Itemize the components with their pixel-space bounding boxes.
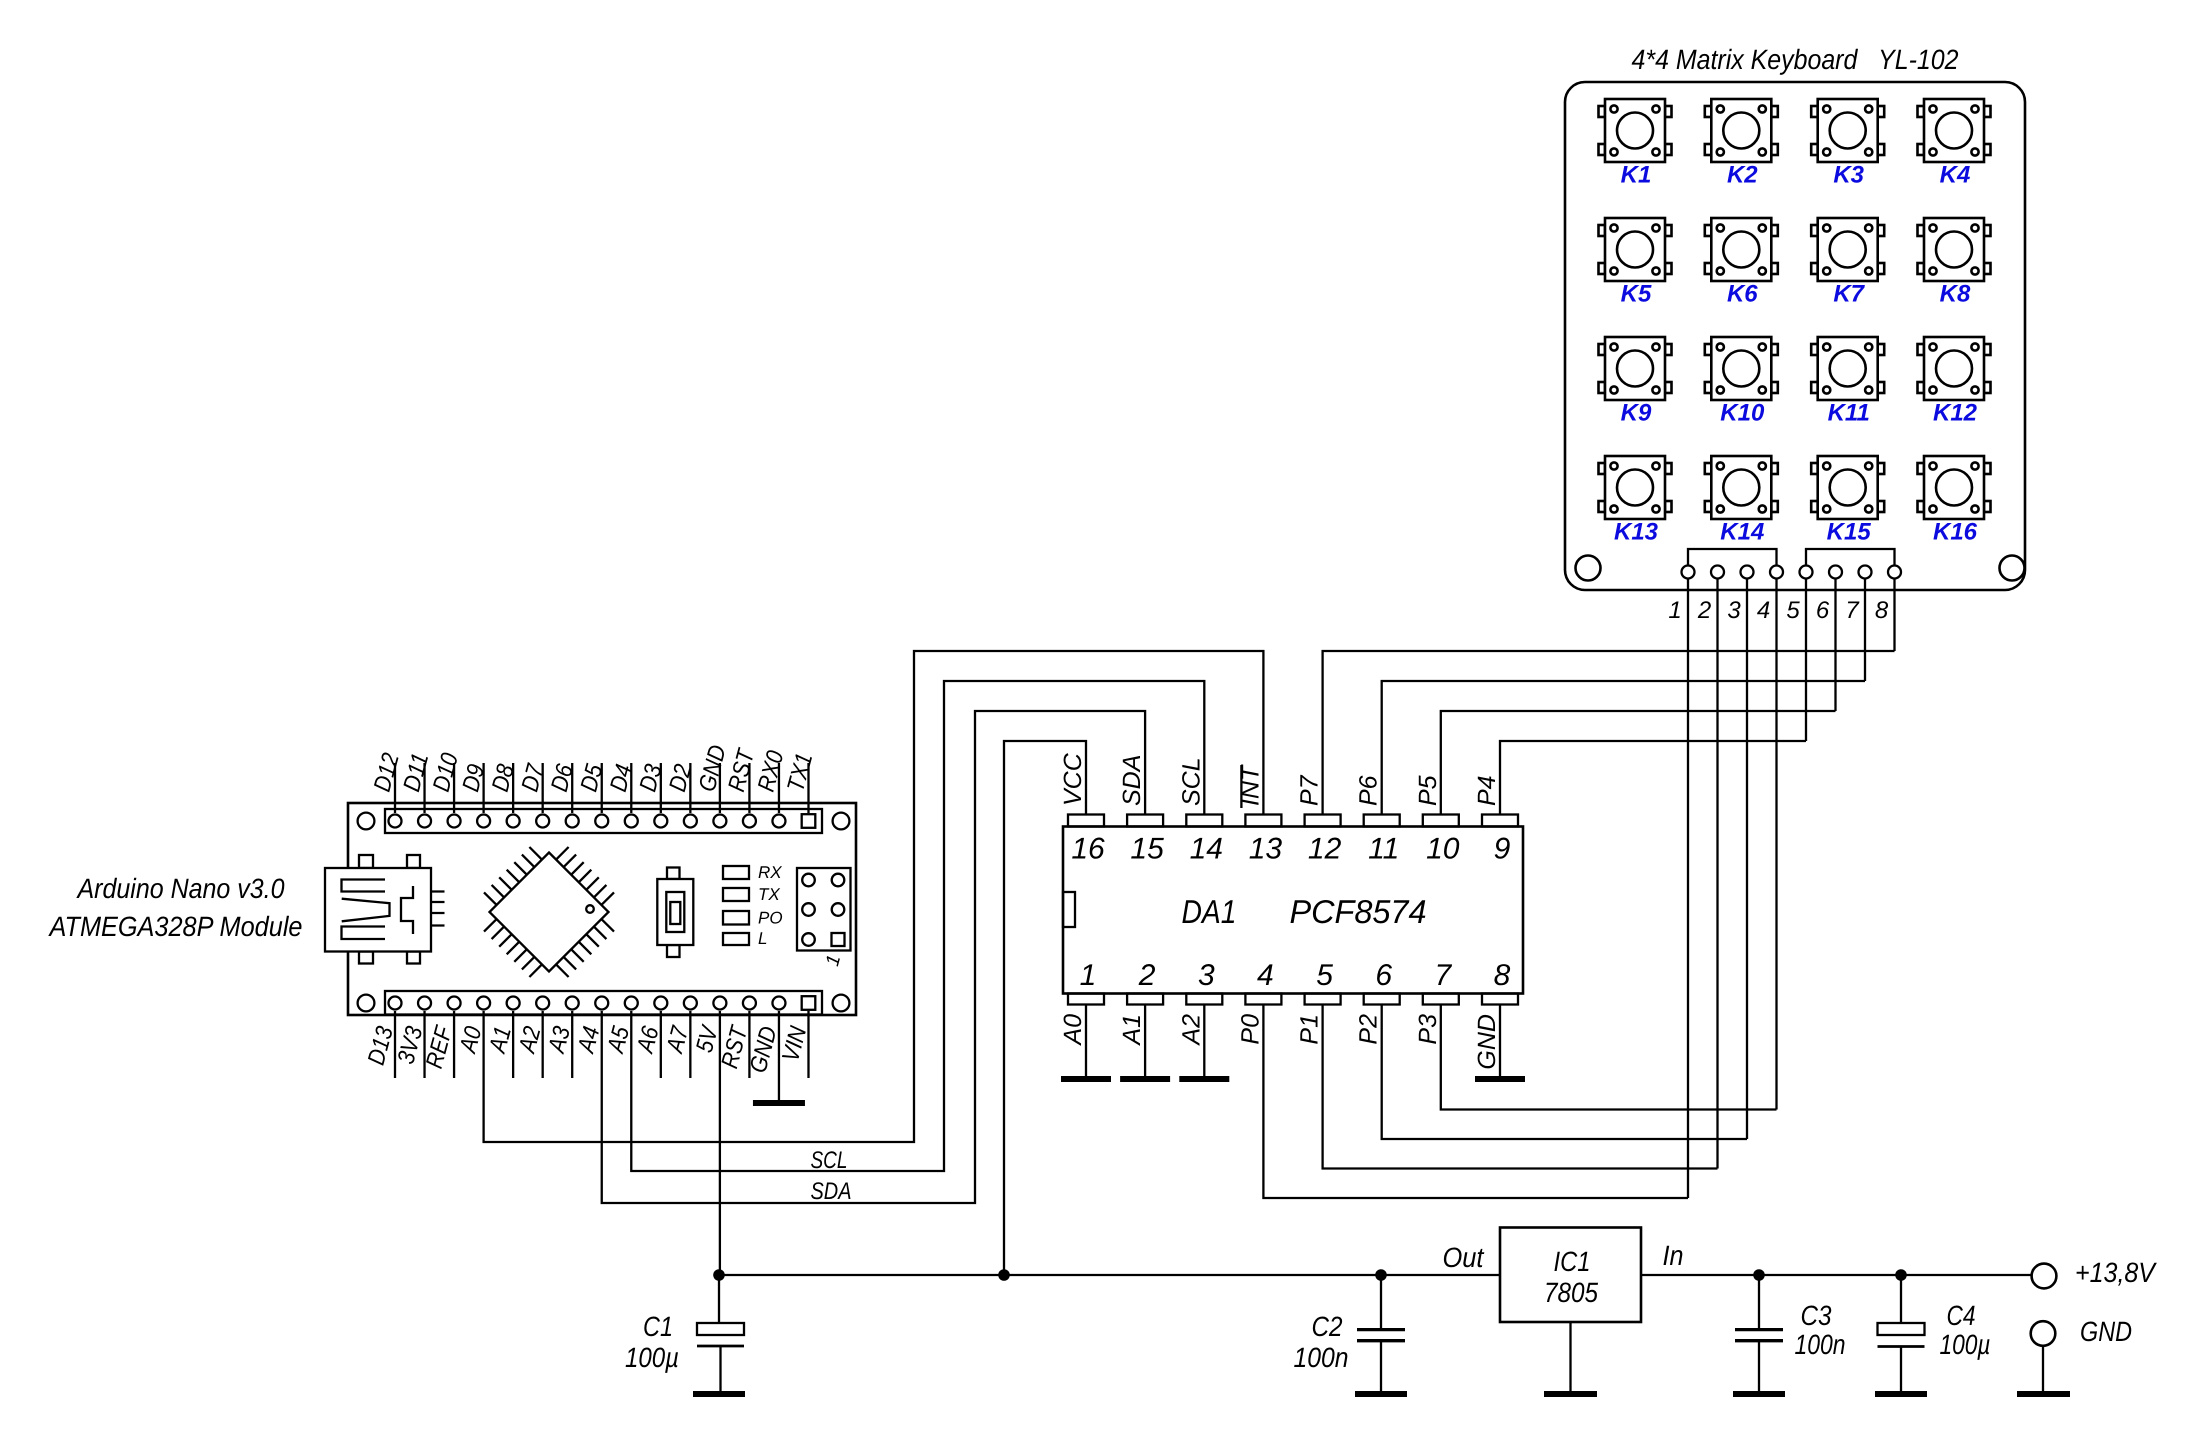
pushbutton K4 [1918, 99, 1991, 162]
voltage regulator IC1 7805 [1500, 1228, 1641, 1323]
svg-text:SCL: SCL [1177, 757, 1205, 806]
Arduino bottom pin VIN pad [802, 996, 816, 1010]
DA1 bottom pin 5 (P1) [1305, 994, 1341, 1005]
wire stub pin D10 [453, 763, 455, 813]
svg-text:1: 1 [1080, 959, 1097, 992]
Arduino bottom pin D13 pad [389, 997, 402, 1010]
Arduino top pin TX1 pad [802, 814, 816, 828]
svg-text:K4: K4 [1940, 162, 1971, 189]
svg-text:7805: 7805 [1544, 1277, 1598, 1308]
Arduino top pin D6 pad [566, 815, 579, 828]
wire stub pin RST [748, 1011, 750, 1078]
wire stub pin D4 [630, 763, 632, 813]
wire net P0 (DA1 pin 4 to keyboard pin 1) [1263, 1004, 1688, 1198]
svg-text:C3: C3 [1801, 1300, 1832, 1331]
svg-text:SCL: SCL [811, 1147, 848, 1174]
pushbutton K11 [1811, 337, 1884, 400]
Arduino bottom pin A1 pad [507, 997, 520, 1010]
pushbutton K6 [1705, 218, 1778, 281]
keyboard module YL-102 board outline [1565, 82, 2025, 590]
svg-text:P5: P5 [1414, 775, 1442, 806]
keyboard connector pin 3 pad [1741, 566, 1754, 579]
Arduino bottom header strip [385, 991, 822, 1015]
wire junction [1753, 1269, 1765, 1281]
svg-text:K1: K1 [1621, 162, 1652, 189]
capacitor C2 100n [1380, 1275, 1382, 1328]
wire Arduino GND pin to ground [778, 1011, 780, 1100]
pushbutton K15 [1811, 456, 1884, 519]
svg-text:P3: P3 [1414, 1014, 1442, 1045]
Arduino mounting hole [833, 813, 850, 830]
wire stub pin A7 [689, 1011, 691, 1078]
pushbutton K12 [1918, 337, 1991, 400]
Arduino top pin D12 pad [389, 815, 402, 828]
pushbutton K3 [1811, 99, 1884, 162]
svg-text:DA1: DA1 [1182, 893, 1237, 930]
wire A2 to ground [1203, 1004, 1205, 1076]
Arduino bottom pin A3 pad [566, 997, 579, 1010]
wire stub pin RST [748, 763, 750, 813]
keyboard connector bracket rows 1-4 [1688, 549, 1777, 565]
pushbutton K13 [1599, 456, 1672, 519]
wire stub pin RX0 [778, 763, 780, 813]
svg-text:K7: K7 [1833, 281, 1865, 308]
Arduino top pin D4 pad [625, 815, 638, 828]
svg-text:16: 16 [1071, 833, 1105, 866]
svg-text:SDA: SDA [811, 1178, 852, 1205]
DA1 bottom pin 4 (P0) [1245, 994, 1281, 1005]
wire from keyboard pin 4 [1775, 579, 1777, 1110]
wire stub pin 3V3 [423, 1011, 425, 1078]
DA1 top pin 13 (INT) [1245, 815, 1281, 827]
svg-text:10: 10 [1426, 833, 1460, 866]
svg-text:K6: K6 [1727, 281, 1758, 308]
DA1 bottom pin 8 (GND) [1482, 994, 1518, 1005]
reset button SW [657, 868, 693, 958]
wire net SCL (Arduino A5 to DA1 pin 14) [631, 681, 1204, 1171]
svg-text:GND: GND [1473, 1014, 1501, 1070]
terminal GND [2031, 1321, 2056, 1346]
pushbutton K5 [1599, 218, 1672, 281]
svg-text:P1: P1 [1296, 1014, 1324, 1045]
svg-text:P6: P6 [1355, 775, 1383, 806]
keyboard connector pin 6 pad [1829, 566, 1842, 579]
keyboard connector pin 7 pad [1859, 566, 1872, 579]
wire junction [998, 1269, 1010, 1281]
Arduino top pin D2 pad [684, 815, 697, 828]
svg-text:VCC: VCC [1059, 752, 1087, 806]
wire from keyboard pin 2 [1716, 579, 1718, 1169]
svg-text:P2: P2 [1355, 1014, 1383, 1045]
svg-text:K13: K13 [1614, 519, 1659, 546]
svg-text:100n: 100n [1294, 1342, 1349, 1373]
svg-text:K8: K8 [1940, 281, 1971, 308]
svg-text:8: 8 [1875, 597, 1889, 624]
pushbutton K7 [1811, 218, 1884, 281]
wire stub pin D13 [394, 1011, 396, 1078]
svg-text:SDA: SDA [1118, 755, 1146, 806]
svg-text:+13,8V: +13,8V [2075, 1257, 2157, 1288]
Arduino top pin RST pad [743, 815, 756, 828]
pushbutton K16 [1918, 456, 1991, 519]
svg-text:K11: K11 [1828, 400, 1870, 427]
LED RX [723, 866, 749, 879]
svg-text:ATMEGA328P Module: ATMEGA328P Module [48, 911, 303, 942]
LED PO [723, 911, 749, 925]
pushbutton K2 [1705, 99, 1778, 162]
svg-text:PCF8574: PCF8574 [1290, 893, 1427, 930]
DA1 top pin 10 (P5) [1423, 815, 1459, 827]
svg-text:P7: P7 [1296, 774, 1324, 806]
svg-text:15: 15 [1130, 833, 1164, 866]
wire stub pin A3 [571, 1011, 573, 1078]
ground symbol A2 [1179, 1076, 1229, 1082]
svg-text:4: 4 [1757, 597, 1770, 624]
LED TX [723, 888, 749, 901]
DA1 top pin 14 (SCL) [1186, 815, 1222, 827]
wire Arduino 5V pin to +5V rail [719, 1011, 721, 1275]
svg-text:P4: P4 [1473, 775, 1501, 806]
wire from keyboard pin 8 [1893, 579, 1895, 652]
pushbutton K9 [1599, 337, 1672, 400]
svg-text:1: 1 [1668, 597, 1681, 624]
Arduino Nano module board outline [348, 803, 856, 1015]
Arduino bottom pin GND pad [772, 997, 785, 1010]
svg-text:K16: K16 [1933, 519, 1978, 546]
svg-text:C1: C1 [643, 1311, 673, 1342]
Arduino bottom pin 5V pad [713, 997, 726, 1010]
Arduino mounting hole [358, 813, 375, 830]
wire stub pin TX1 [807, 763, 809, 813]
svg-text:K5: K5 [1621, 281, 1652, 308]
wire stub pin GND [719, 763, 721, 813]
svg-text:P0: P0 [1236, 1014, 1264, 1045]
svg-text:13: 13 [1249, 833, 1283, 866]
wire stub pin REF [453, 1011, 455, 1078]
wire stub pin D6 [571, 763, 573, 813]
svg-text:Out: Out [1443, 1242, 1485, 1273]
ground symbol Arduino GND [753, 1100, 805, 1106]
DA1 bottom pin 3 (A2) [1186, 994, 1222, 1005]
USB connector body [325, 855, 445, 964]
Arduino bottom pin A7 pad [684, 997, 697, 1010]
wire stub pin D11 [423, 763, 425, 813]
DA1 top pin 12 (P7) [1305, 815, 1341, 827]
Arduino top pin GND pad [713, 815, 726, 828]
Arduino top pin D9 pad [477, 815, 490, 828]
wire net P2 (DA1 pin 6 to keyboard pin 3) [1382, 1004, 1747, 1139]
DA1 bottom pin 1 (A0) [1068, 994, 1104, 1005]
svg-text:14: 14 [1190, 833, 1223, 866]
wire stub pin D12 [394, 763, 396, 813]
wire stub pin VIN [807, 1011, 809, 1078]
keyboard connector pin 1 pad [1682, 566, 1695, 579]
Arduino bottom pin A5 pad [625, 997, 638, 1010]
wire stub pin D5 [601, 763, 603, 813]
wire junction [1895, 1269, 1907, 1281]
capacitor C4 100u electrolytic [1900, 1275, 1902, 1323]
ground symbol A0 [1061, 1076, 1111, 1082]
keyboard connector pin 8 pad [1888, 566, 1901, 579]
svg-text:K14: K14 [1720, 519, 1764, 546]
svg-text:3: 3 [1727, 597, 1741, 624]
svg-text:2: 2 [1697, 597, 1711, 624]
svg-text:11: 11 [1368, 833, 1399, 866]
svg-text:2: 2 [1138, 959, 1156, 992]
DA1 bottom pin 6 (P2) [1364, 994, 1400, 1005]
svg-text:K15: K15 [1827, 519, 1872, 546]
Arduino top pin RX0 pad [772, 815, 785, 828]
DA1 bottom pin 7 (P3) [1423, 994, 1459, 1005]
svg-text:A1: A1 [1118, 1014, 1146, 1047]
wire from keyboard pin 7 [1864, 579, 1866, 682]
svg-text:RX: RX [758, 863, 782, 882]
wire junction [1375, 1269, 1387, 1281]
wire net P5 (DA1 pin 10 to keyboard pin 6) [1441, 711, 1836, 815]
terminal +13.8V [2032, 1264, 2057, 1289]
ground symbol C1 [693, 1391, 745, 1397]
wire junction [713, 1269, 725, 1281]
wire stub pin A2 [542, 1011, 544, 1078]
pushbutton K14 [1705, 456, 1778, 519]
Arduino bottom pin A2 pad [536, 997, 549, 1010]
IC DA1 PCF8574 body [1063, 827, 1523, 994]
capacitor C1 100u electrolytic [718, 1275, 720, 1323]
svg-text:5: 5 [1316, 959, 1333, 992]
ATMEGA328P chip (diamond) [484, 847, 614, 977]
svg-text:K12: K12 [1933, 400, 1978, 427]
wire A1 to ground [1144, 1004, 1146, 1076]
keyboard connector pin 2 pad [1711, 566, 1724, 579]
svg-text:4: 4 [1257, 959, 1274, 992]
ground symbol C4 [1875, 1391, 1927, 1397]
DA1 top pin 16 (VCC) [1068, 815, 1104, 827]
Arduino top pin D11 pad [418, 815, 431, 828]
svg-text:3: 3 [1198, 959, 1215, 992]
svg-text:IC1: IC1 [1554, 1246, 1591, 1277]
ground symbol GND terminal [2017, 1391, 2070, 1397]
Arduino bottom pin A4 pad [595, 997, 608, 1010]
capacitor C3 100n [1758, 1275, 1760, 1328]
Arduino bottom pin A0 pad [477, 997, 490, 1010]
wire net SDA (Arduino A4 to DA1 pin 15) [602, 711, 1145, 1203]
wire net VCC (DA1 pin 16 to +5V rail) [1004, 741, 1086, 1275]
Arduino top pin D8 pad [507, 815, 520, 828]
wire A0 to ground [1085, 1004, 1087, 1076]
+13.8V input rail [1641, 1274, 2032, 1276]
DA1 top pin 9 (P4) [1482, 815, 1518, 827]
svg-text:100µ: 100µ [1940, 1329, 1991, 1360]
Arduino top header strip [385, 809, 822, 833]
ground symbol C3 [1733, 1391, 1785, 1397]
svg-text:TX: TX [758, 885, 780, 904]
svg-text:4*4 Matrix Keyboard YL-102: 4*4 Matrix Keyboard YL-102 [1632, 44, 1959, 75]
wire from keyboard pin 6 [1834, 579, 1836, 712]
wire stub pin D9 [482, 763, 484, 813]
ground symbol A1 [1120, 1076, 1170, 1082]
Arduino top pin D3 pad [654, 815, 667, 828]
wire net P7 (DA1 pin 12 to keyboard pin 8) [1323, 651, 1895, 815]
svg-text:6: 6 [1816, 597, 1830, 624]
pushbutton K1 [1599, 99, 1672, 162]
Arduino top pin D10 pad [448, 815, 461, 828]
svg-text:K2: K2 [1727, 162, 1758, 189]
svg-text:7: 7 [1845, 597, 1860, 624]
ICSP header [797, 868, 851, 951]
svg-text:12: 12 [1308, 833, 1342, 866]
wire stub pin D8 [512, 763, 514, 813]
ground symbol IC1 [1544, 1391, 1597, 1397]
svg-text:7: 7 [1434, 959, 1452, 992]
svg-text:L: L [758, 929, 767, 948]
+5V power rail (7805 output) [719, 1274, 1500, 1276]
wire stub pin D7 [542, 763, 544, 813]
svg-text:100µ: 100µ [625, 1342, 679, 1373]
DA1 notch [1063, 892, 1075, 927]
Arduino bottom pin 3V3 pad [418, 997, 431, 1010]
svg-text:K3: K3 [1833, 162, 1864, 189]
svg-text:A0: A0 [1059, 1014, 1087, 1047]
wire stub pin D2 [689, 763, 691, 813]
keyboard mounting hole right [2000, 556, 2025, 581]
wire GND terminal to ground [2042, 1346, 2044, 1391]
wire from keyboard pin 1 [1687, 579, 1689, 1199]
Arduino bottom pin RST pad [743, 997, 756, 1010]
svg-text:8: 8 [1494, 959, 1511, 992]
wire stub pin A1 [512, 1011, 514, 1078]
Arduino mounting hole [833, 995, 850, 1012]
wire IC1 ground [1569, 1322, 1571, 1391]
Arduino mounting hole [358, 995, 375, 1012]
DA1 top pin 15 (SDA) [1127, 815, 1163, 827]
Arduino bottom pin A6 pad [654, 997, 667, 1010]
svg-text:K9: K9 [1621, 400, 1652, 427]
wire DA1 GND pin to ground [1499, 1004, 1501, 1076]
svg-text:5: 5 [1786, 597, 1800, 624]
wire net P4 (DA1 pin 9 to keyboard pin 5) [1500, 741, 1806, 815]
svg-text:Arduino Nano v3.0: Arduino Nano v3.0 [76, 873, 285, 904]
keyboard connector pin 4 pad [1770, 566, 1783, 579]
wire net A0-INT (Arduino A0 to DA1 pin 13) [484, 651, 1264, 1142]
wire net P3 (DA1 pin 7 to keyboard pin 4) [1441, 1004, 1777, 1110]
DA1 top pin 11 (P6) [1364, 815, 1400, 827]
svg-text:A2: A2 [1177, 1014, 1205, 1047]
ground symbol C2 [1355, 1391, 1407, 1397]
Arduino top pin D5 pad [595, 815, 608, 828]
pushbutton K10 [1705, 337, 1778, 400]
svg-text:C4: C4 [1947, 1300, 1976, 1331]
ground symbol DA1 GND [1475, 1076, 1525, 1082]
svg-text:In: In [1663, 1240, 1684, 1271]
svg-text:PO: PO [758, 909, 783, 928]
DA1 bottom pin 2 (A1) [1127, 994, 1163, 1005]
keyboard connector pin 5 pad [1800, 566, 1813, 579]
wire net P1 (DA1 pin 5 to keyboard pin 2) [1323, 1004, 1718, 1169]
wire from keyboard pin 3 [1746, 579, 1748, 1140]
pushbutton K8 [1918, 218, 1991, 281]
Arduino top pin D7 pad [536, 815, 549, 828]
keyboard connector bracket columns 5-8 [1806, 549, 1895, 565]
svg-text:K10: K10 [1720, 400, 1765, 427]
wire net P6 (DA1 pin 11 to keyboard pin 7) [1382, 681, 1865, 815]
wire from keyboard pin 5 [1805, 579, 1807, 742]
svg-text:100n: 100n [1795, 1329, 1846, 1360]
LED L [723, 933, 749, 945]
svg-text:9: 9 [1494, 833, 1511, 866]
svg-text:GND: GND [2080, 1316, 2132, 1347]
wire stub pin A6 [660, 1011, 662, 1078]
keyboard mounting hole left [1576, 556, 1601, 581]
svg-text:6: 6 [1375, 959, 1392, 992]
svg-text:C2: C2 [1312, 1311, 1343, 1342]
Arduino bottom pin REF pad [448, 997, 461, 1010]
wire stub pin D3 [660, 763, 662, 813]
